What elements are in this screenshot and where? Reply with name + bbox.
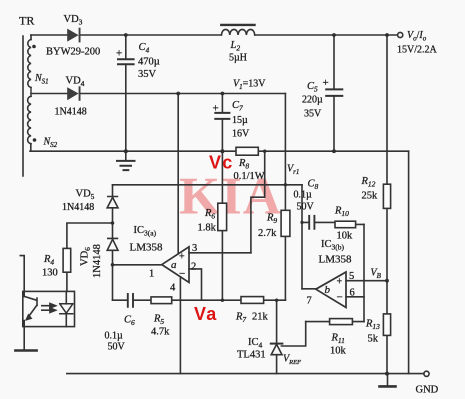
svg-text:21k: 21k (252, 312, 269, 323)
svg-text:BYW29-200: BYW29-200 (46, 47, 100, 58)
svg-text:0.1µ: 0.1µ (105, 331, 124, 342)
svg-text:7: 7 (307, 296, 312, 307)
svg-text:35V: 35V (138, 69, 157, 80)
svg-text:2.7k: 2.7k (258, 228, 277, 239)
svg-text:+: + (116, 48, 122, 60)
svg-text:6: 6 (350, 288, 355, 299)
svg-text:Va: Va (194, 304, 217, 324)
svg-text:0.1µ: 0.1µ (294, 190, 313, 201)
svg-text:−: − (179, 268, 185, 280)
svg-text:+: + (213, 103, 219, 115)
svg-text:LM358: LM358 (319, 254, 353, 266)
svg-text:50V: 50V (108, 342, 126, 353)
svg-text:4.7k: 4.7k (151, 327, 170, 338)
svg-text:1.8k: 1.8k (198, 223, 217, 234)
svg-text:16V: 16V (232, 129, 250, 140)
svg-text:+: + (337, 277, 343, 288)
svg-text:KIA: KIA (179, 168, 281, 226)
svg-text:b: b (325, 284, 331, 296)
svg-text:TL431: TL431 (237, 350, 266, 361)
svg-text:5: 5 (349, 271, 354, 282)
svg-text:a: a (171, 259, 177, 271)
svg-text:TR: TR (19, 14, 34, 28)
svg-text:GND: GND (416, 385, 439, 396)
svg-text:5k: 5k (368, 334, 379, 345)
svg-text:10k: 10k (330, 346, 347, 357)
svg-text:+: + (179, 252, 185, 263)
svg-text:3: 3 (192, 243, 197, 254)
svg-text:50V: 50V (297, 202, 315, 213)
svg-text:1N4148: 1N4148 (92, 244, 103, 278)
svg-text:15V/2.2A: 15V/2.2A (397, 45, 438, 56)
svg-text:470µ: 470µ (138, 57, 160, 68)
svg-text:V1=13V: V1=13V (233, 79, 266, 92)
svg-text:+: + (323, 77, 329, 89)
svg-text:−: − (337, 292, 343, 304)
svg-text:25k: 25k (362, 191, 379, 202)
svg-text:LM358: LM358 (130, 242, 164, 254)
svg-text:1N4148: 1N4148 (55, 107, 87, 118)
svg-text:1N4148: 1N4148 (62, 202, 94, 213)
svg-text:4: 4 (170, 283, 176, 294)
svg-text:2: 2 (191, 262, 196, 273)
svg-text:10k: 10k (337, 231, 354, 242)
svg-text:220µ: 220µ (302, 95, 323, 106)
svg-text:35V: 35V (304, 109, 322, 120)
svg-text:1: 1 (149, 269, 154, 280)
svg-text:130: 130 (42, 268, 58, 279)
svg-text:Vc: Vc (209, 153, 233, 173)
svg-text:0.1/1W: 0.1/1W (234, 171, 265, 182)
svg-text:15µ: 15µ (232, 115, 248, 126)
svg-text:5µH: 5µH (229, 53, 247, 64)
